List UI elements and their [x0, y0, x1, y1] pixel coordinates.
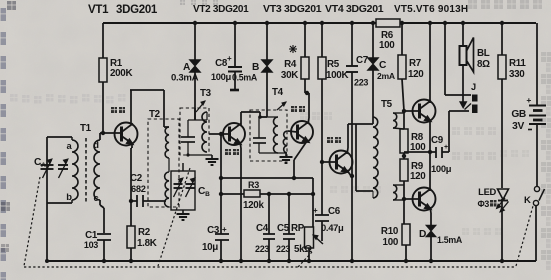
svg-text:R7: R7	[409, 58, 422, 69]
node VT5 base	[402, 109, 406, 113]
transformer T1 core	[85, 138, 87, 202]
svg-text:0.5mA: 0.5mA	[232, 73, 258, 83]
svg-text:3V: 3V	[512, 121, 524, 132]
capacitor C8	[211, 54, 242, 89]
transformer T1 winding a-b	[72, 137, 78, 203]
svg-text:120k: 120k	[243, 200, 264, 211]
transistor VT3	[291, 121, 313, 143]
wire R5 to VT4 base	[320, 160, 336, 164]
svg-text:T2: T2	[149, 109, 161, 120]
svg-text:30K: 30K	[281, 70, 298, 81]
wire T4 internal bottom	[259, 152, 286, 154]
wire T2 primary top	[0, 0, 1, 1]
svg-text:3DG201: 3DG201	[116, 4, 158, 16]
svg-text:1.8K: 1.8K	[137, 238, 157, 249]
test point C	[368, 58, 395, 81]
resistor R2	[127, 226, 157, 249]
svg-text:223: 223	[276, 244, 290, 254]
resistor R5	[318, 23, 348, 162]
transformer T4 winding	[260, 117, 278, 153]
transistor VT1	[115, 123, 138, 146]
test point B	[232, 60, 273, 83]
wire left supply drop	[102, 23, 104, 58]
node top rail x305	[303, 21, 307, 25]
svg-text:C: C	[379, 60, 387, 71]
svg-text:VT3 3DG201: VT3 3DG201	[263, 3, 322, 15]
svg-text:+: +	[313, 206, 318, 215]
wire d to VT1 base	[100, 133, 121, 140]
capacitor CA	[34, 157, 54, 178]
svg-text:R3: R3	[248, 180, 259, 190]
transistor VT6	[413, 188, 436, 211]
node top rail x267	[265, 21, 269, 25]
label VT5 VT6 type	[394, 4, 468, 15]
node top rail x502	[500, 21, 504, 25]
wire C8 drop	[234, 23, 236, 67]
svg-text:+: +	[444, 144, 448, 151]
label c	[94, 192, 99, 203]
capacitor CB trimmer	[186, 178, 196, 197]
battery GB	[511, 95, 546, 132]
svg-text:103: 103	[84, 240, 98, 250]
label VT4 type	[325, 3, 384, 15]
wire VT5 emitter	[429, 120, 431, 152]
svg-text:LED: LED	[478, 186, 496, 197]
node top rail x195	[193, 21, 197, 25]
resistor R10	[381, 181, 410, 263]
wire tank bottom	[47, 202, 72, 204]
wire AVC to R3	[221, 193, 244, 195]
svg-text:T5: T5	[381, 99, 393, 110]
svg-text:VT5.VT6 9013H: VT5.VT6 9013H	[394, 4, 468, 15]
node top rail x373	[371, 21, 375, 25]
capacitor C2	[129, 173, 166, 207]
wire VT3 collector	[305, 93, 309, 124]
wire speaker drop	[462, 23, 464, 47]
transistor VT5	[413, 100, 436, 123]
transformer T2 primary winding	[165, 127, 169, 158]
label b	[66, 191, 72, 202]
wire AVC vertical	[220, 134, 222, 194]
wire A drop	[194, 23, 196, 120]
gang capacitor box	[171, 163, 195, 210]
wire B drop	[258, 23, 267, 119]
label green-dot VT1	[111, 107, 125, 113]
svg-text:GB: GB	[511, 109, 526, 120]
label VT2 type	[193, 4, 249, 15]
svg-text:C6: C6	[328, 206, 341, 217]
label VT3 type	[263, 3, 322, 15]
capacitor C5	[276, 194, 295, 263]
node tank bottom	[45, 259, 49, 263]
wire VT5 base	[404, 110, 419, 112]
wire VT5 collector to rail	[429, 23, 431, 103]
wire VT1 collector	[130, 90, 132, 124]
svg-text:0.47μ: 0.47μ	[321, 222, 344, 233]
transformer T2 oscillator winding	[165, 158, 169, 207]
svg-text:d: d	[93, 139, 99, 150]
label d	[93, 139, 99, 150]
wire R1 to VT1 base node	[101, 82, 105, 135]
transistor VT2	[223, 123, 245, 145]
transformer T5 secondary lower	[393, 185, 404, 200]
label T2	[149, 109, 161, 120]
transformer T3 shield box	[180, 108, 209, 155]
svg-text:VT2 3DG201: VT2 3DG201	[193, 4, 249, 15]
resistor R3	[243, 180, 264, 211]
svg-text:A: A	[183, 62, 191, 73]
wire output node	[403, 155, 405, 157]
speaker BL	[460, 38, 491, 73]
svg-text:C8: C8	[215, 58, 228, 69]
label CB	[198, 186, 210, 198]
LED	[477, 186, 508, 212]
label blue-dot VT3	[291, 106, 305, 112]
resistor R11	[498, 23, 526, 80]
wire VT1 emitter to R2	[131, 143, 132, 226]
wire tank top	[47, 136, 72, 138]
svg-text:R5: R5	[327, 59, 340, 70]
label T3	[196, 88, 212, 112]
resistor R4	[281, 23, 309, 95]
transistor VT4	[330, 151, 353, 174]
svg-text:+: +	[222, 225, 227, 234]
svg-text:B: B	[252, 62, 259, 73]
wire speaker to jack	[460, 66, 467, 108]
wire VT4 emitter	[347, 170, 354, 178]
transformer T3 winding	[202, 112, 207, 152]
ground C8	[230, 89, 239, 92]
node AVC lower	[219, 192, 223, 196]
svg-text:223: 223	[354, 78, 368, 88]
capacitor T4 internal	[253, 117, 266, 153]
wire VT4 collector to T5	[347, 124, 356, 154]
node VT6 base	[402, 197, 406, 201]
capacitor C9	[404, 135, 452, 174]
wire CA left drop to ground rail	[46, 137, 48, 261]
svg-text:0.3mA: 0.3mA	[171, 73, 199, 84]
link gang bottom	[24, 266, 516, 268]
wire R2 to rail	[129, 248, 133, 263]
node top rail x352	[350, 21, 354, 25]
svg-text:R10: R10	[381, 226, 399, 237]
capacitor trimmer on CA	[58, 159, 68, 178]
resistor R8	[400, 111, 426, 153]
node top rail x445	[443, 21, 447, 25]
wire T4 to VT3 base	[288, 131, 297, 132]
wire VT1 collector to T2	[130, 90, 169, 127]
svg-text:8Ω: 8Ω	[477, 59, 490, 70]
svg-text:100: 100	[383, 237, 399, 248]
svg-text:5kΩ: 5kΩ	[294, 244, 312, 255]
wire battery to switch	[536, 124, 538, 187]
svg-text:T4: T4	[272, 87, 284, 98]
svg-text:R11: R11	[509, 58, 526, 69]
transformer T4 secondary	[283, 131, 288, 153]
svg-text:BL: BL	[477, 48, 490, 59]
capacitor C3	[202, 194, 229, 263]
svg-text:100μ: 100μ	[211, 71, 232, 82]
capacitor C6	[313, 162, 344, 241]
wire T3 internal top	[188, 119, 207, 121]
wire VT2 emitter to rail	[239, 142, 243, 263]
wire R11 to LED	[501, 79, 503, 188]
wire T3 top	[194, 108, 196, 120]
wire c to C1	[100, 200, 104, 233]
wire T5 left side	[356, 124, 373, 191]
test point D	[419, 225, 463, 263]
link tuning gang CA	[24, 177, 40, 266]
capacitor C4	[255, 194, 275, 263]
node top rail x430	[428, 21, 432, 25]
svg-text:+: +	[227, 54, 232, 63]
svg-text:C2: C2	[130, 173, 143, 184]
wire battery top	[536, 23, 538, 106]
transformer T2 shield box	[148, 119, 179, 207]
svg-text:100: 100	[379, 40, 395, 51]
svg-text:b: b	[66, 191, 72, 202]
node top rail x235	[233, 21, 237, 25]
node top rail x463	[461, 21, 465, 25]
svg-text:2mA: 2mA	[377, 71, 395, 81]
svg-text:c: c	[94, 192, 99, 203]
wire bottom ground rail	[48, 260, 536, 262]
svg-text:1.5mA: 1.5mA	[437, 235, 463, 245]
svg-text:10μ: 10μ	[202, 242, 218, 253]
transformer T1 winding d-c	[94, 140, 100, 200]
ground tank	[177, 210, 190, 220]
svg-text:J: J	[471, 82, 476, 92]
resistor R1	[99, 58, 132, 82]
switch K	[524, 186, 545, 206]
svg-text:C3: C3	[207, 225, 220, 236]
svg-text:D: D	[419, 229, 426, 240]
wire VT2 collector to T4	[241, 112, 260, 126]
svg-text:120: 120	[410, 171, 426, 182]
jack J contacts	[465, 95, 478, 114]
svg-text:223: 223	[255, 244, 269, 254]
capacitor CB	[174, 178, 184, 197]
node output mid	[402, 154, 406, 158]
wire C9 to jack	[449, 111, 469, 152]
svg-text:T1: T1	[80, 123, 92, 134]
node top rail x322	[320, 21, 324, 25]
svg-text:+: +	[526, 95, 531, 105]
svg-text:R4: R4	[284, 59, 297, 70]
wire T3 to VT2 base	[209, 132, 229, 136]
svg-text:RP: RP	[291, 223, 305, 234]
capacitor C7	[346, 23, 369, 263]
transformer T5 secondary upper	[393, 113, 404, 129]
node top rail x402	[400, 21, 404, 25]
svg-text:Φ3: Φ3	[477, 199, 489, 209]
svg-text:VT4 3DG201: VT4 3DG201	[325, 3, 384, 15]
svg-text:VT1: VT1	[88, 4, 109, 16]
wire detector to volume	[221, 177, 313, 179]
label blue-dot VT2	[225, 149, 239, 155]
ground T3	[206, 155, 219, 165]
transformer T4 shield box	[250, 110, 287, 161]
label T1	[80, 123, 92, 134]
svg-text:682: 682	[131, 184, 146, 194]
wire LED to rail	[500, 199, 504, 263]
svg-text:C4: C4	[256, 223, 269, 234]
svg-text:T3: T3	[200, 88, 212, 99]
node AVC upper	[219, 176, 223, 180]
wire switch to rail	[535, 206, 537, 261]
wire C1 to rail	[102, 240, 106, 263]
wire top supply rail	[103, 22, 536, 24]
label VT1 type	[88, 4, 158, 16]
wire VT6 emitter to D	[430, 207, 431, 225]
wire VT3 emitter to volume line	[292, 141, 307, 180]
capacitor T3 internal	[181, 120, 195, 155]
resistor R6	[376, 19, 400, 51]
link RP	[298, 252, 312, 267]
svg-text:120: 120	[408, 69, 424, 80]
wire jack feed	[445, 23, 471, 95]
ground T4	[280, 153, 293, 163]
label T5	[381, 99, 393, 110]
wire VT6 collector	[428, 150, 432, 191]
test point A	[171, 60, 201, 84]
svg-text:100μ: 100μ	[431, 163, 452, 174]
svg-text:200K: 200K	[110, 68, 132, 79]
transformer T5 primary	[373, 117, 378, 198]
wire T3 internal bottom	[186, 153, 212, 156]
svg-text:C5: C5	[277, 223, 290, 234]
wire C drop	[372, 23, 374, 124]
svg-text:330: 330	[509, 69, 525, 80]
wire VT6 base	[404, 198, 419, 200]
potentiometer RP	[291, 178, 315, 263]
svg-text:100K: 100K	[326, 70, 348, 81]
wire R3 right	[260, 192, 313, 196]
svg-text:K: K	[524, 195, 531, 206]
label a	[67, 140, 73, 151]
svg-text:C7: C7	[356, 55, 369, 66]
resistor R9	[400, 153, 426, 182]
label T4	[272, 87, 286, 110]
link tuning gang CB	[158, 168, 190, 266]
label J	[471, 82, 476, 92]
svg-text:R2: R2	[138, 227, 151, 238]
label purple-dot VT4	[327, 137, 341, 143]
resistor R7	[398, 23, 424, 111]
potentiometer RP wiper	[313, 235, 323, 244]
capacitor C1	[84, 230, 111, 250]
svg-text:C9: C9	[431, 135, 444, 146]
link switch K	[516, 206, 533, 266]
